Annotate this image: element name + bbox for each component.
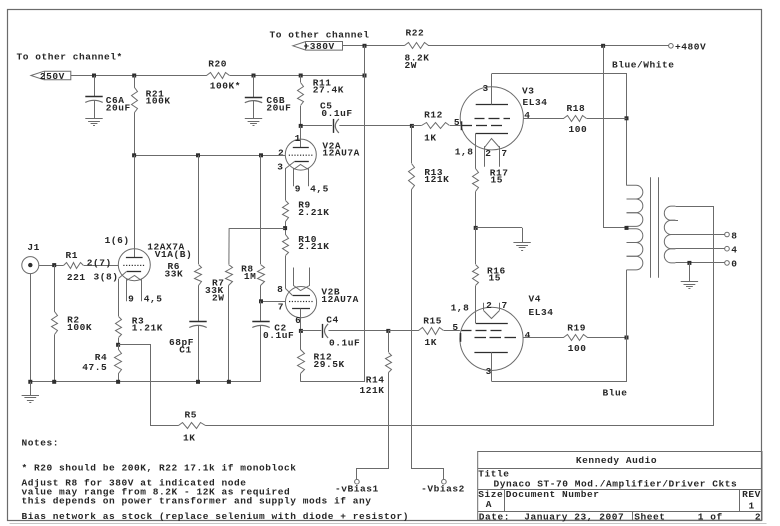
resistor R18 (524, 103, 627, 135)
junction (299, 74, 303, 78)
pin label 5 (454, 117, 460, 128)
resistor R2 (52, 265, 93, 382)
node 250V to-other-channel label (17, 52, 123, 63)
svg-text:12AU7A: 12AU7A (321, 294, 359, 305)
svg-text:EL34: EL34 (523, 97, 548, 108)
svg-text:C1: C1 (179, 344, 192, 355)
svg-text:1,8: 1,8 (451, 302, 470, 313)
svg-text:V1A(B): V1A(B) (155, 249, 193, 260)
junction (92, 74, 96, 78)
svg-text:-Vbias2: -Vbias2 (421, 484, 465, 495)
junction (196, 153, 200, 157)
svg-text:15: 15 (491, 175, 504, 186)
wire V2A grid bus (134, 155, 285, 157)
transformer core (651, 177, 659, 278)
svg-text:Date:: Date: (479, 512, 510, 523)
svg-text:+380V: +380V (303, 41, 334, 52)
svg-text:R20: R20 (208, 59, 227, 70)
junction (196, 380, 200, 384)
wire J1 to R1 (39, 265, 64, 267)
capacitor C1 (169, 322, 207, 382)
svg-text:A: A (486, 499, 492, 510)
svg-text:To other channel*: To other channel* (17, 52, 123, 63)
svg-text:121K: 121K (424, 174, 449, 185)
svg-text:Kennedy Audio: Kennedy Audio (576, 455, 657, 466)
junction (52, 380, 56, 384)
svg-text:R18: R18 (567, 103, 586, 114)
svg-text:20uF: 20uF (266, 102, 291, 113)
capacitor C6B (245, 76, 292, 119)
wire V3 plate to transformer (492, 74, 627, 186)
svg-text:3: 3 (277, 161, 283, 172)
svg-text:EL34: EL34 (529, 307, 554, 318)
wire V1 plate line (134, 155, 136, 258)
junction (259, 153, 263, 157)
svg-text:J1: J1 (27, 242, 40, 253)
node +380V to-other-channel label (270, 30, 370, 41)
svg-text:1(6): 1(6) (105, 235, 130, 246)
svg-text:Blue/White: Blue/White (612, 60, 675, 71)
ground (85, 119, 102, 126)
svg-text:9: 9 (128, 294, 134, 305)
wire R1 to V1 grid (84, 265, 119, 267)
svg-text:1M: 1M (244, 271, 257, 282)
junction (259, 299, 263, 303)
svg-text:4: 4 (525, 330, 531, 341)
svg-text:2W: 2W (405, 60, 418, 71)
svg-text:7: 7 (278, 302, 284, 313)
resistor R21 (132, 76, 171, 156)
junction (116, 343, 120, 347)
junction (116, 380, 120, 384)
svg-text:R12: R12 (424, 110, 443, 121)
junction (252, 74, 256, 78)
pin label 1(6) (105, 235, 130, 246)
svg-text:REV: REV (742, 489, 761, 500)
power flag +380V (293, 41, 343, 52)
resistor R14 (357, 331, 392, 480)
svg-text:2: 2 (485, 148, 491, 159)
terminal -vBias1 (335, 479, 379, 494)
wire R8 to V2B grid (261, 301, 286, 303)
svg-text:100K*: 100K* (210, 81, 241, 92)
node Blue label (603, 388, 628, 399)
resistor R13 (409, 126, 450, 480)
svg-text:100: 100 (569, 124, 588, 135)
terminal 8 (725, 230, 738, 241)
resistor R12 1K (412, 110, 461, 144)
wire V2A cathode (285, 168, 287, 200)
svg-text:January 23, 2007: January 23, 2007 (524, 512, 624, 523)
wire R5 to output secondary (206, 207, 714, 426)
ground (681, 263, 698, 289)
junction (227, 380, 231, 384)
capacitor C2 (252, 301, 294, 382)
wire secondary tap 0 (675, 262, 724, 264)
wire +380V rail to R22 (343, 45, 405, 47)
wire secondary tap 4 (675, 248, 724, 250)
svg-text:0.1uF: 0.1uF (263, 330, 294, 341)
svg-text:29.5K: 29.5K (314, 359, 345, 370)
svg-text:2.21K: 2.21K (298, 207, 329, 218)
junction (625, 226, 629, 230)
svg-text:this depends on power transfor: this depends on power transformer and su… (22, 496, 372, 507)
svg-text:250V: 250V (40, 71, 65, 82)
wire feedback from V1 cathode (119, 345, 179, 426)
junction (687, 261, 691, 265)
svg-text:C4: C4 (326, 315, 339, 326)
junction (132, 74, 136, 78)
wire +480V to primary center tap (604, 46, 627, 228)
capacitor C5 (301, 101, 412, 133)
svg-text:2: 2 (755, 512, 761, 523)
junction (28, 380, 32, 384)
svg-text:100: 100 (568, 343, 587, 354)
ground (513, 228, 530, 251)
svg-text:2: 2 (278, 148, 284, 159)
junction (601, 44, 605, 48)
junction (299, 329, 303, 333)
junction (299, 124, 303, 128)
svg-text:0.1uF: 0.1uF (329, 338, 360, 349)
notes text (22, 438, 410, 522)
svg-text:4,5: 4,5 (144, 294, 163, 305)
wire R9 R10 node to R7 (229, 228, 285, 230)
svg-text:R14: R14 (366, 375, 385, 386)
svg-text:9: 9 (295, 184, 301, 195)
resistor R17 (473, 168, 509, 228)
wire V2A plate to node (300, 126, 302, 148)
svg-text:0: 0 (731, 259, 737, 270)
capacitor C6A (85, 76, 131, 119)
wire J1 shield to ground (30, 274, 32, 382)
svg-text:33K: 33K (165, 269, 184, 280)
svg-text:2: 2 (486, 300, 492, 311)
junction (283, 226, 287, 230)
junction (363, 74, 367, 78)
svg-text:Blue: Blue (603, 388, 628, 399)
pentode V4 EL34 (451, 293, 554, 381)
svg-text:5: 5 (452, 322, 458, 333)
ground (22, 382, 39, 403)
title block (478, 452, 762, 523)
wire R20 to +380V line (230, 75, 365, 77)
svg-text:-vBias1: -vBias1 (335, 484, 379, 495)
svg-text:4,5: 4,5 (310, 184, 329, 195)
svg-text:Document Number: Document Number (506, 489, 600, 500)
svg-text:5: 5 (454, 117, 460, 128)
svg-text:V4: V4 (529, 293, 542, 304)
resistor R22 (405, 28, 430, 72)
triode V2B 12AU7A (277, 268, 359, 326)
svg-text:To other channel: To other channel (270, 30, 370, 41)
svg-text:0.1uF: 0.1uF (321, 108, 352, 119)
junction (386, 329, 390, 333)
junction (625, 116, 629, 120)
svg-text:27.4K: 27.4K (313, 85, 344, 96)
svg-text:121K: 121K (359, 385, 384, 396)
svg-text:1: 1 (295, 133, 301, 144)
svg-text:Sheet: Sheet (634, 512, 665, 523)
svg-text:R15: R15 (423, 316, 442, 327)
svg-text:1K: 1K (183, 433, 196, 444)
svg-text:4: 4 (731, 245, 737, 256)
triode V1A 12AX7A (118, 242, 192, 305)
junction (363, 44, 367, 48)
svg-text:2W: 2W (212, 293, 225, 304)
svg-text:R1: R1 (66, 250, 79, 261)
resistor R9 (283, 200, 330, 235)
svg-text:20uF: 20uF (106, 102, 131, 113)
resistor R3 (116, 315, 163, 345)
terminal 0 (725, 259, 738, 270)
svg-text:1,8: 1,8 (455, 146, 474, 157)
terminal +480V (669, 42, 707, 53)
svg-text:Dynaco ST-70 Mod./Amplifier/Dr: Dynaco ST-70 Mod./Amplifier/Driver Ckts (494, 479, 738, 490)
transformer T1 secondary winding (664, 206, 678, 263)
wire +380V feed down to R12 bottom (301, 46, 365, 382)
svg-text:8: 8 (731, 230, 737, 241)
svg-text:+480V: +480V (675, 42, 706, 53)
resistor R16 (473, 228, 506, 324)
svg-text:R22: R22 (406, 28, 425, 39)
ground (245, 119, 262, 126)
svg-text:R5: R5 (185, 410, 198, 421)
svg-text:R19: R19 (567, 323, 586, 334)
svg-text:47.5: 47.5 (82, 362, 107, 373)
pin label 3(8) (94, 271, 119, 282)
svg-text:3: 3 (483, 83, 489, 94)
wire 250V rail (71, 75, 207, 77)
junction (52, 263, 56, 267)
svg-text:3(8): 3(8) (94, 271, 119, 282)
resistor R20 (207, 59, 241, 92)
resistor R10 (283, 234, 330, 289)
resistor R6 (165, 155, 202, 322)
junction (474, 226, 478, 230)
svg-text:2(7): 2(7) (87, 257, 112, 268)
terminal -Vbias2 (421, 479, 465, 494)
wire R22 to +480V terminal (428, 45, 669, 47)
svg-text:* R20 should be 200K, R22 17.1: * R20 should be 200K, R22 17.1k if monob… (22, 463, 297, 474)
junction (132, 153, 136, 157)
svg-text:1K: 1K (424, 132, 437, 143)
wire ground bus (30, 381, 261, 383)
resistor R7 (205, 228, 233, 382)
connector J1 input jack (22, 242, 40, 273)
resistor R4 (82, 345, 121, 382)
resistor R5 (179, 410, 206, 444)
svg-text:100K: 100K (67, 322, 92, 333)
svg-text:Bias network as stock (replace: Bias network as stock (replace selenium … (22, 511, 410, 522)
svg-text:100K: 100K (146, 96, 171, 107)
svg-text:2.21K: 2.21K (298, 241, 329, 252)
power flag 250V (31, 71, 71, 82)
svg-text:4: 4 (524, 110, 530, 121)
svg-text:V3: V3 (522, 85, 535, 96)
capacitor C4 (301, 315, 388, 349)
resistor R12 29.5K (298, 331, 345, 382)
svg-text:7: 7 (502, 300, 508, 311)
svg-text:Notes:: Notes: (22, 438, 60, 449)
svg-text:8: 8 (277, 284, 283, 295)
pentode V3 EL34 (455, 74, 548, 167)
resistor R19 (523, 323, 626, 354)
junction (625, 336, 629, 340)
node Blue/White label (612, 60, 675, 71)
wire V3 cathode (475, 133, 477, 168)
svg-text:1 of: 1 of (698, 512, 723, 523)
svg-text:12AU7A: 12AU7A (322, 147, 360, 158)
svg-text:221: 221 (67, 272, 86, 283)
pin label 5 (452, 322, 458, 333)
resistor R15 (388, 316, 460, 348)
wire secondary tap 8 (675, 234, 724, 236)
wire V1 cathode (118, 279, 120, 316)
svg-text:1K: 1K (425, 337, 438, 348)
wire V4 plate loop (492, 338, 627, 382)
svg-text:15: 15 (489, 272, 502, 283)
terminal 4 (725, 245, 738, 256)
wire cathode node to ground (476, 227, 522, 229)
svg-text:3: 3 (486, 366, 492, 377)
svg-text:1: 1 (749, 501, 755, 512)
junction (410, 124, 414, 128)
pin label 2(7) (87, 257, 112, 268)
transformer T1 primary winding (627, 185, 643, 337)
svg-text:7: 7 (501, 148, 507, 159)
resistor R1 (64, 250, 86, 283)
resistor R11 (298, 76, 345, 126)
svg-text:1.21K: 1.21K (132, 323, 163, 334)
wire V2B plate (300, 309, 302, 331)
triode V2A 12AU7A (277, 133, 360, 194)
resistor R8 (241, 155, 264, 301)
